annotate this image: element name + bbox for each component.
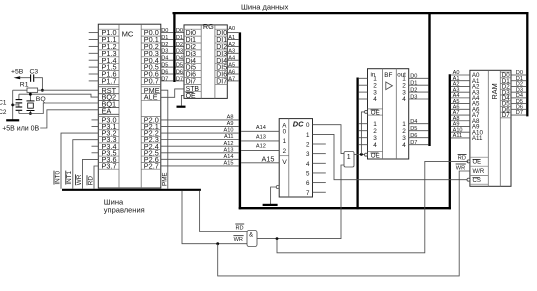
stub P3.5 — [92, 152, 99, 154]
svg-text:V: V — [282, 159, 287, 166]
svg-text:1: 1 — [402, 121, 406, 128]
svg-text:D0: D0 — [161, 28, 168, 34]
wire A14 to DC input 0 — [241, 125, 279, 132]
RAM pin OE with circle — [473, 159, 482, 165]
wire INT0 from P3.2 — [61, 133, 98, 189]
stub BF input 3 group1 from bus — [359, 91, 368, 93]
svg-text:D2: D2 — [410, 88, 417, 94]
svg-text:A3: A3 — [228, 49, 235, 55]
svg-text:A9: A9 — [227, 121, 234, 127]
svg-text:A11: A11 — [472, 135, 483, 142]
svg-text:D0: D0 — [176, 28, 183, 34]
wire RAM D2 to data bus — [511, 82, 526, 88]
stub P3.1 — [92, 126, 99, 128]
svg-text:OE: OE — [473, 160, 482, 166]
wire address bus to RAM A10 — [451, 127, 470, 133]
wire DC output 1 to RAM CS net — [313, 134, 469, 179]
stub P3.4 — [92, 145, 99, 147]
data bus top line (Шина данных) — [173, 12, 529, 14]
stub DC output 6 — [313, 182, 326, 184]
wire BF output group1 to bus, net D3 — [409, 94, 429, 100]
wire C3 to RST node — [34, 78, 42, 91]
wire AND output to RAM OE (RD net) — [277, 161, 468, 252]
wire OR output to BF OE pins — [354, 153, 365, 155]
svg-text:D7: D7 — [516, 110, 523, 116]
MC left pin cells P1.0-P1.7 — [98, 28, 119, 85]
wire BF output group1 to bus, net D1 — [409, 81, 429, 87]
stub DC output 3 — [313, 153, 326, 155]
svg-text:D7: D7 — [502, 112, 510, 119]
svg-text:WR: WR — [234, 237, 243, 243]
wire data bus to RG Di7, net D7 — [176, 76, 185, 82]
wire P0.1 to data bus, net D1 — [161, 35, 174, 41]
svg-text:RG: RG — [203, 22, 214, 31]
junction BQ top — [29, 93, 32, 96]
RAM right pin cells D0-D7 — [500, 72, 511, 119]
DC enable inversion circle — [276, 186, 279, 189]
svg-text:A7: A7 — [228, 76, 235, 82]
wire P2.4 to address bus, net A12 — [161, 141, 239, 147]
svg-text:A8: A8 — [227, 115, 234, 121]
wire BF output group2 to bus, net D4 — [409, 119, 429, 125]
wire P2.5 to address bus, net A13 — [161, 147, 239, 153]
wire A15 to DC input V — [241, 154, 279, 163]
svg-text:WR: WR — [456, 165, 465, 171]
AND gate & box — [247, 231, 257, 247]
junction BQ bottom — [29, 112, 32, 115]
svg-text:4: 4 — [306, 161, 310, 168]
wire P2.0 to address bus, net A8 — [161, 115, 239, 121]
RG right pin cells Di0-Di7 — [215, 29, 227, 85]
wire address bus to RAM A11 — [451, 133, 470, 139]
RAM pin CS with circle — [473, 178, 481, 184]
wire P2.2 to address bus, net A10 — [161, 128, 239, 134]
wire RAM D6 to data bus — [511, 105, 526, 111]
svg-text:A14: A14 — [224, 154, 234, 160]
label WR at RAM — [456, 164, 466, 171]
wire P2.6 to address bus, net A14 — [161, 154, 239, 160]
svg-text:1: 1 — [283, 138, 287, 145]
wire RAM D1 to data bus — [511, 76, 526, 82]
svg-text:D3: D3 — [410, 94, 417, 100]
wire BF output group2 to bus, net D5 — [409, 126, 429, 132]
svg-text:D5: D5 — [410, 126, 417, 132]
DC output pin numbers 0-7 — [306, 122, 310, 197]
stub BF input 2 group2 from bus — [359, 130, 368, 132]
svg-text:6: 6 — [306, 180, 310, 187]
capacitor C2 — [16, 105, 23, 114]
wire RG out to address bus, net A0 — [227, 26, 238, 33]
svg-text:PME: PME — [161, 172, 168, 186]
wire P0.5 to data bus, net D5 — [161, 63, 174, 69]
svg-text:RD: RD — [458, 155, 466, 161]
junction OR output node — [360, 153, 363, 156]
wire P0.6 to data bus, net D6 — [161, 69, 174, 75]
svg-text:D4: D4 — [161, 56, 168, 62]
svg-text:ALE: ALE — [144, 93, 158, 102]
BF right pin numbers group2 — [402, 121, 406, 149]
buffer BF block body — [368, 69, 409, 159]
BF OE1 inversion circle — [365, 110, 368, 113]
wire data bus to RG Di0, net D0 — [176, 28, 185, 34]
address/system bus bottom horizontal — [239, 207, 451, 209]
wire WR branch to RAM W/R — [218, 171, 470, 276]
svg-text:OE: OE — [371, 152, 380, 159]
svg-text:C2: C2 — [0, 109, 7, 116]
svg-text:4: 4 — [373, 96, 377, 103]
svg-text:D5: D5 — [176, 63, 183, 69]
wire DC enable to ground — [271, 187, 277, 204]
svg-text:OE: OE — [371, 109, 380, 116]
MC right pin cells PME ALE — [141, 86, 161, 102]
svg-text:Шина данных: Шина данных — [241, 3, 289, 12]
MC right pin cells P0.0-P0.7 — [141, 28, 161, 85]
svg-text:A13: A13 — [224, 147, 234, 153]
crystal BQ — [27, 94, 35, 113]
svg-text:INT1: INT1 — [66, 170, 73, 184]
wire RG out to address bus, net A1 — [227, 35, 238, 41]
address bus left vertical — [239, 32, 241, 209]
svg-text:D2: D2 — [161, 42, 168, 48]
svg-text:5: 5 — [306, 170, 310, 177]
wire P0.7 to data bus, net D7 — [161, 76, 174, 82]
wire PME to control bus — [161, 90, 168, 189]
svg-text:1: 1 — [306, 132, 310, 139]
data bus middle vertical drop (BF out) — [428, 12, 430, 146]
svg-text:+5В: +5В — [11, 68, 24, 75]
stub BF input 4 group2 from bus — [359, 144, 368, 146]
stub DC output 7 — [313, 191, 326, 193]
node BQ2 rail — [19, 94, 98, 97]
junction AND output — [276, 237, 279, 240]
junction C3/RST — [41, 89, 44, 92]
data bus right vertical drop — [526, 12, 528, 116]
svg-text:управления: управления — [104, 206, 145, 215]
ground symbol DC enable — [263, 204, 278, 206]
address bus right vertical (RAM) — [449, 74, 451, 209]
svg-text:C3: C3 — [30, 68, 39, 75]
svg-text:1: 1 — [373, 121, 377, 128]
BF OE2 cell — [368, 152, 383, 160]
wire RAM D5 to data bus — [511, 99, 526, 105]
wire address bus to RAM A5 — [451, 99, 470, 105]
svg-text:0: 0 — [306, 122, 310, 129]
wire address bus to RAM A1 — [451, 76, 470, 82]
svg-text:DI7: DI7 — [216, 79, 227, 86]
svg-text:D7: D7 — [410, 140, 417, 146]
wire RAM D4 to data bus — [511, 93, 526, 99]
BF triangle symbol — [386, 82, 393, 90]
RAM control pin cell borders — [470, 156, 488, 158]
svg-text:A13: A13 — [256, 135, 266, 141]
svg-text:RAM: RAM — [490, 83, 499, 99]
svg-text:A5: A5 — [228, 63, 235, 69]
P1 port stub wires — [89, 33, 99, 81]
svg-text:4: 4 — [373, 142, 377, 149]
wire data bus to RG Di1, net D1 — [176, 35, 185, 41]
svg-text:A15: A15 — [224, 161, 234, 167]
svg-text:BQ: BQ — [36, 96, 46, 103]
svg-text:A1: A1 — [228, 35, 235, 41]
svg-text:D3: D3 — [176, 49, 183, 55]
MC right pin cells P2.0-P2.7 — [141, 116, 161, 171]
wire AND gate output — [257, 238, 277, 240]
wire data bus to RG Di4, net D4 — [176, 56, 185, 62]
wire data bus to RG Di5, net D5 — [176, 63, 185, 69]
svg-text:A12: A12 — [224, 141, 234, 147]
svg-text:W/R: W/R — [473, 169, 485, 175]
RG left pin cells Di0-Di7 STB OE — [184, 29, 201, 100]
wire ALE to RG STB — [161, 89, 184, 97]
capacitor C1 — [16, 94, 23, 105]
svg-text:2: 2 — [283, 148, 287, 155]
wire RAM D0 to data bus — [511, 70, 526, 76]
BF left pin numbers group2 — [373, 121, 377, 149]
stub BF input 3 group2 from bus — [359, 137, 368, 139]
wire RG out to address bus, net A5 — [227, 63, 238, 69]
wire RG OE to ground — [181, 95, 184, 105]
wire ground to C1C2 midpoint — [13, 104, 19, 106]
svg-text:3: 3 — [402, 135, 406, 142]
svg-text:A14: A14 — [256, 125, 266, 131]
wire EA — [40, 110, 98, 128]
svg-text:D1: D1 — [176, 35, 183, 41]
junction ground/capacitor midpoint — [11, 104, 14, 107]
svg-text:R1: R1 — [20, 82, 29, 89]
svg-text:7: 7 — [306, 190, 310, 197]
wire RAM D7 to data bus — [511, 110, 526, 116]
ground rail left — [12, 90, 14, 119]
svg-text:A2: A2 — [228, 42, 235, 48]
wire address bus to RAM A9 — [451, 122, 470, 128]
svg-text:D0: D0 — [410, 74, 417, 80]
wire control bus drop WR — [182, 191, 247, 244]
svg-text:INT0: INT0 — [54, 170, 61, 184]
wire P0.4 to data bus, net D4 — [161, 56, 174, 62]
wire P2.3 to address bus, net A11 — [161, 134, 239, 140]
svg-text:EA: EA — [102, 107, 112, 116]
decoder DC block body — [279, 119, 312, 197]
capacitor C3 — [31, 74, 34, 81]
wire P0.3 to data bus, net D3 — [161, 49, 174, 55]
wire A12 to DC input 2 — [241, 144, 279, 151]
wire control bus drop RD — [200, 191, 247, 232]
RAM left pin labels A0-A11 — [472, 72, 484, 142]
svg-text:DC: DC — [293, 120, 304, 129]
stub BF input 2 group1 from bus — [359, 84, 368, 86]
control bus line (Шина управления) — [62, 189, 201, 191]
wire AND output to OR gate input 2 — [277, 165, 344, 239]
svg-text:2: 2 — [306, 142, 310, 149]
wire RD from P3.7 — [94, 166, 98, 189]
svg-text:C1: C1 — [0, 99, 7, 106]
svg-text:RD: RD — [87, 176, 94, 186]
svg-text:3: 3 — [373, 135, 377, 142]
svg-text:P0.7: P0.7 — [144, 77, 159, 86]
svg-text:D7: D7 — [176, 76, 183, 82]
label WR at gate — [233, 236, 243, 244]
wire RST left segment — [13, 89, 27, 91]
wire R1 to RST pin — [38, 89, 99, 91]
svg-text:A4: A4 — [228, 56, 235, 62]
svg-text:4: 4 — [402, 142, 406, 149]
wire RG out to address bus, net A3 — [227, 49, 238, 55]
BF OE1 cell — [368, 109, 383, 116]
wire A13 to DC input 1 — [241, 135, 279, 141]
svg-text:A0: A0 — [228, 26, 235, 32]
svg-text:WR: WR — [76, 174, 83, 185]
wire address bus to RAM A7 — [451, 110, 470, 116]
svg-text:2: 2 — [402, 128, 406, 135]
microcontroller MC block body — [98, 24, 161, 188]
svg-text:A11: A11 — [224, 134, 234, 140]
wire RG out to address bus, net A7 — [227, 76, 238, 82]
wire BF output group2 to bus, net D6 — [409, 133, 429, 139]
svg-text:P2.7: P2.7 — [144, 162, 159, 171]
stub P3.0 — [92, 119, 99, 121]
svg-text:2: 2 — [373, 128, 377, 135]
MC mid pin cells RST BQ2 BQ1 EA — [98, 86, 119, 116]
data bus left vertical drop — [173, 12, 175, 82]
svg-text:CS: CS — [473, 178, 481, 184]
svg-text:3: 3 — [306, 151, 310, 158]
svg-text:D4: D4 — [176, 56, 183, 62]
wire BF output group2 to bus, net D7 — [409, 140, 429, 146]
+5V power arrow — [14, 76, 31, 79]
svg-text:D1: D1 — [410, 81, 417, 87]
wire data bus to RG Di3, net D3 — [176, 49, 185, 55]
svg-text:D5: D5 — [161, 63, 168, 69]
junction WR branch — [216, 242, 219, 245]
svg-text:P3.7: P3.7 — [102, 162, 117, 171]
BF OE2 inversion circle — [365, 153, 368, 156]
svg-text:A10: A10 — [224, 128, 234, 134]
svg-text:D3: D3 — [161, 49, 168, 55]
wire address bus to RAM A8 — [451, 116, 470, 122]
svg-text:0: 0 — [283, 129, 287, 136]
wire address bus to RAM A3 — [451, 87, 470, 93]
label RD at gate — [235, 224, 244, 232]
svg-text:D4: D4 — [410, 119, 417, 125]
svg-text:A6: A6 — [228, 69, 235, 75]
svg-text:Di7: Di7 — [186, 79, 197, 86]
wire OE node up to BF OE1 — [361, 112, 364, 154]
stub DC output 2 — [313, 143, 326, 145]
data bus BF input vertical segment — [356, 78, 358, 210]
wire RG out to address bus, net A6 — [227, 69, 238, 75]
svg-text:A12: A12 — [256, 144, 266, 150]
wire address bus to RAM A2 — [451, 82, 470, 88]
resistor R1 — [27, 88, 38, 92]
wire BF output group1 to bus, net D2 — [409, 88, 429, 94]
stub DC output 5 — [313, 172, 326, 174]
wire WR from P3.6 — [83, 159, 99, 188]
svg-text:OE: OE — [186, 93, 196, 100]
svg-text:D2: D2 — [176, 42, 183, 48]
wire P0.2 to data bus, net D2 — [161, 42, 174, 48]
svg-text:+5В или 0В: +5В или 0В — [2, 125, 39, 132]
wire P2.7 to address bus, net A15 — [161, 161, 239, 167]
stub BF input 1 group2 from bus — [359, 123, 368, 125]
label RD at RAM — [458, 154, 467, 161]
wire INT1 from P3.3 — [73, 140, 99, 189]
svg-text:D6: D6 — [161, 69, 168, 75]
OR gate 1 box — [344, 152, 354, 168]
DC left pin labels A 0 1 2 V — [279, 122, 289, 166]
svg-text:D6: D6 — [176, 69, 183, 75]
BF left pin numbers group1 — [373, 76, 377, 104]
wire data bus to RG Di6, net D6 — [176, 69, 185, 75]
wire address bus to RAM A0 — [451, 70, 470, 76]
svg-text:MC: MC — [122, 29, 134, 38]
wire DC output 0 to OR gate input — [313, 125, 345, 154]
svg-text:1: 1 — [347, 154, 351, 161]
wire P0.0 to data bus, net D0 — [161, 28, 174, 34]
wire RG out to address bus, net A4 — [227, 56, 238, 62]
MC left pin cells P3.0-P3.7 — [98, 116, 119, 171]
wire P2.1 to address bus, net A9 — [161, 121, 239, 127]
svg-text:4: 4 — [402, 96, 406, 103]
stub BF input 4 group1 from bus — [359, 98, 368, 100]
svg-text:A15: A15 — [262, 154, 275, 163]
stub BF input 1 group1 from bus — [359, 77, 368, 79]
memory RAM block body — [470, 70, 511, 186]
svg-text:A11: A11 — [453, 133, 463, 139]
svg-text:BF: BF — [384, 72, 392, 79]
svg-text:RD: RD — [236, 226, 244, 232]
wire BF output group1 to bus, net D0 — [409, 74, 429, 80]
wire address bus to RAM A4 — [451, 93, 470, 99]
ground symbol RG OE — [177, 106, 186, 108]
ground symbol reset — [6, 119, 19, 121]
register RG block body — [184, 25, 227, 99]
wire data bus to RG Di2, net D2 — [176, 42, 185, 48]
wire address bus to RAM A6 — [451, 105, 470, 111]
stub DC output 4 — [313, 162, 326, 164]
svg-text:D6: D6 — [410, 133, 417, 139]
svg-text:D1: D1 — [161, 35, 168, 41]
node BQ1 rail — [19, 103, 98, 114]
wire RAM D3 to data bus — [511, 87, 526, 93]
wire RG out to address bus, net A2 — [227, 42, 238, 48]
svg-text:P1.7: P1.7 — [102, 77, 117, 86]
BF right pin numbers group1 — [402, 76, 406, 104]
svg-text:D7: D7 — [161, 76, 168, 82]
